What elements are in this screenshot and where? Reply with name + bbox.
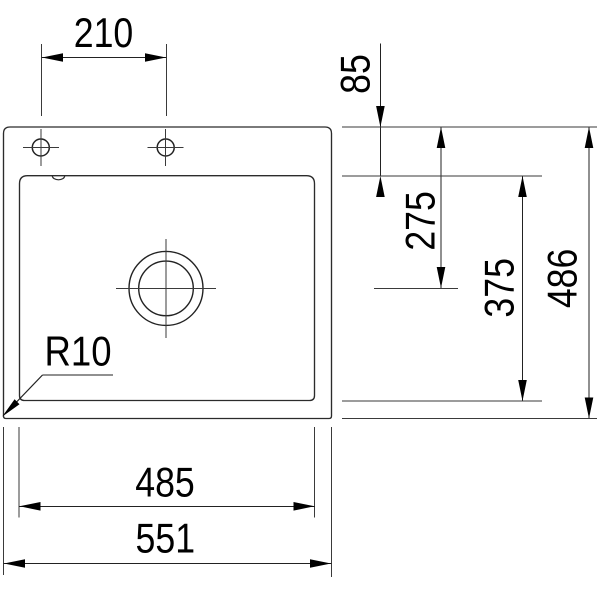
- svg-text:485: 485: [135, 460, 195, 506]
- svg-text:275: 275: [398, 191, 444, 251]
- svg-text:551: 551: [136, 516, 196, 562]
- svg-text:375: 375: [477, 258, 523, 318]
- svg-text:85: 85: [333, 54, 379, 94]
- svg-text:210: 210: [74, 10, 134, 56]
- svg-text:486: 486: [540, 249, 586, 309]
- svg-text:R10: R10: [45, 328, 112, 375]
